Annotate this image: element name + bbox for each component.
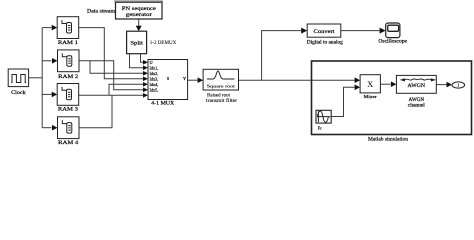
svg-text:RAM 4: RAM 4 [58,140,79,146]
svg-text:Oscilloscope: Oscilloscope [378,40,407,45]
svg-text:RAM 3: RAM 3 [58,106,79,112]
svg-text:PN sequence: PN sequence [122,6,157,12]
svg-text:generator: generator [126,12,152,18]
svg-text:1: 1 [457,84,459,88]
svg-text:4-1 MUX: 4-1 MUX [151,102,174,107]
svg-text:Mixer: Mixer [364,94,378,99]
svg-text:Square root: Square root [207,83,236,88]
svg-text:Digital to analog: Digital to analog [307,40,344,45]
svg-text:RAM 2: RAM 2 [58,74,79,80]
svg-text:Fc: Fc [318,127,322,131]
svg-text:Clock: Clock [11,90,26,96]
svg-text:Matlab simulation: Matlab simulation [368,136,408,142]
svg-text:1-2 DEMUX: 1-2 DEMUX [150,41,177,46]
svg-text:RAM 1: RAM 1 [58,40,79,46]
svg-text:channel: channel [408,104,426,109]
svg-text:Data stream: Data stream [87,8,115,14]
svg-text:AWGN: AWGN [409,98,425,103]
svg-text:X: X [367,79,373,89]
svg-text:Raised root: Raised root [207,93,231,98]
svg-text:AWGN: AWGN [408,84,426,89]
svg-text:Convert: Convert [314,29,336,35]
svg-text:Split: Split [130,41,143,47]
svg-text:transmit filter: transmit filter [206,99,237,104]
